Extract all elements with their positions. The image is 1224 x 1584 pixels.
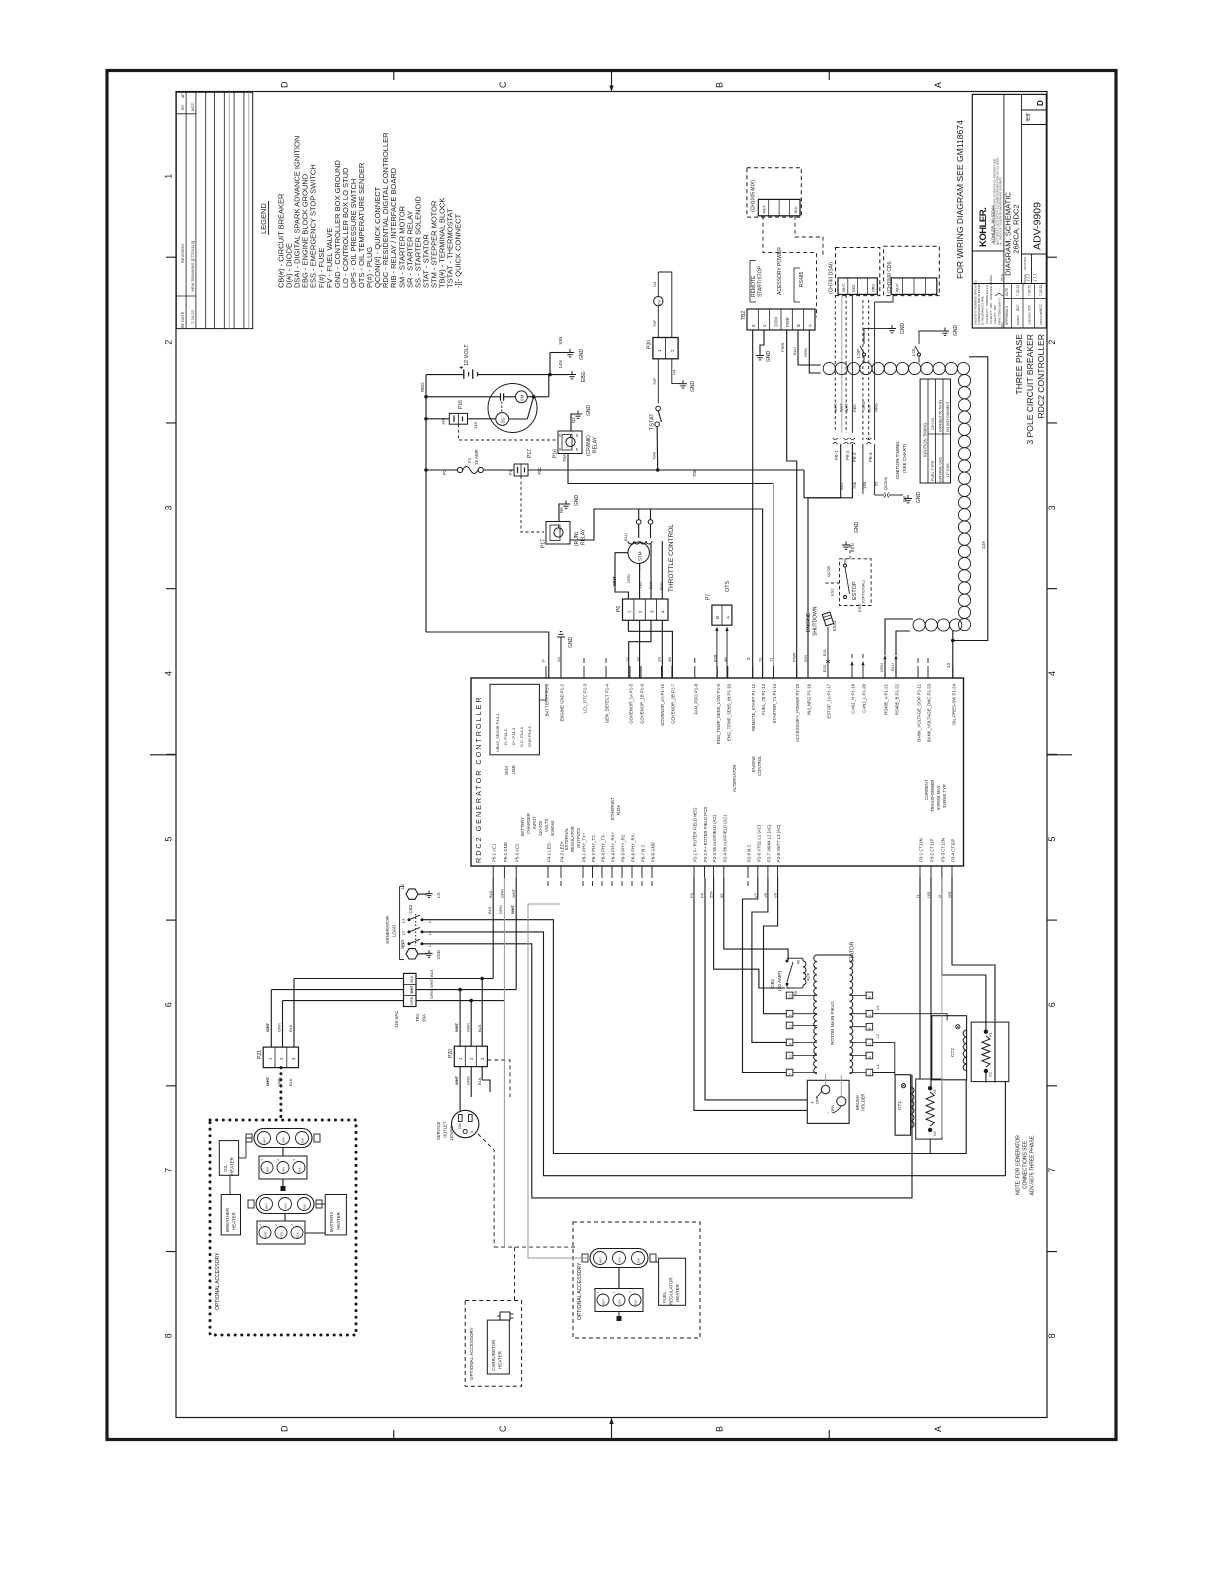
svg-text:RED: RED	[852, 284, 856, 292]
svg-text:N1: N1	[556, 656, 561, 662]
wire 71 grey to P1-14	[773, 484, 775, 679]
svg-text:6: 6	[164, 1002, 174, 1007]
stator phase leads L3 L2 L1	[873, 1014, 947, 1021]
svg-text:FN: FN	[689, 893, 694, 898]
svg-text:BLK: BLK	[303, 1204, 307, 1209]
svg-text:BCC: BCC	[1016, 304, 1020, 311]
svg-text:110 VAC: 110 VAC	[394, 1010, 399, 1028]
svg-text:L1: L1	[401, 942, 406, 947]
svg-text:BLK: BLK	[634, 1300, 638, 1305]
svg-text:RED: RED	[659, 582, 664, 591]
wires below P8	[808, 444, 841, 678]
svg-text:FV: FV	[657, 300, 662, 305]
svg-text:SHUTDOWN: SHUTDOWN	[813, 606, 819, 636]
svg-text:RJ45: RJ45	[616, 805, 621, 815]
svg-text:P6-1 PHY_TX+: P6-1 PHY_TX+	[582, 832, 587, 862]
svg-text:P3-4 CTJ2P: P3-4 CTJ2P	[951, 838, 956, 862]
svg-text:26RCA, RDC2: 26RCA, RDC2	[1012, 204, 1021, 253]
svg-text:L2: L2	[875, 1033, 880, 1038]
svg-text:GRN: GRN	[466, 1023, 471, 1032]
svg-text:THROTTLE CONTROL: THROTTLE CONTROL	[668, 524, 675, 592]
svg-text:HEATER: HEATER	[230, 1156, 235, 1175]
zone ticks left/right	[166, 256, 176, 258]
quick connect N3 to GND	[875, 494, 884, 496]
chain bottom wires GRN BLU to P1-21 P1-22	[885, 619, 913, 655]
svg-text:GND: GND	[579, 349, 585, 361]
svg-text:I2R: I2R	[947, 892, 952, 898]
svg-text:L2: L2	[427, 930, 432, 935]
svg-text:V8: V8	[763, 892, 768, 898]
svg-text:FRACTIONS &#177;: FRACTIONS &#177;	[998, 297, 1002, 325]
svg-text:5: 5	[164, 837, 174, 842]
svg-text:NEW DRAWING [CT221113]: NEW DRAWING [CT221113]	[190, 241, 195, 292]
ground 10N GND	[550, 352, 566, 354]
svg-text:P2-6 V7/11 L1 (AC): P2-6 V7/11 L1 (AC)	[756, 824, 761, 862]
svg-text:CARBURETOR: CARBURETOR	[491, 1339, 496, 1371]
svg-text:RE: RE	[181, 322, 185, 328]
svg-text:REGULATOR: REGULATOR	[570, 826, 575, 852]
oil heater	[219, 1141, 238, 1176]
svg-text:STARTER_71 P1-14: STARTER_71 P1-14	[772, 683, 777, 723]
svg-text:RED: RED	[420, 382, 425, 392]
inner drawing frame	[176, 92, 1047, 1418]
svg-text:LOL: LOL	[911, 347, 916, 356]
svg-text:WHT: WHT	[511, 888, 516, 898]
svg-text:BATTERY: BATTERY	[329, 1212, 334, 1232]
svg-text:P6-6 PHY_RX-: P6-6 PHY_RX-	[631, 833, 636, 862]
brush feed wires from controller	[705, 878, 807, 1100]
svg-text:ES1: ES1	[823, 649, 827, 656]
svg-text:CONTROL: CONTROL	[757, 755, 762, 776]
svg-text:ESTOP: ESTOP	[852, 581, 858, 600]
svg-text:50/60Hz: 50/60Hz	[550, 820, 555, 836]
svg-text:WHT: WHT	[602, 1299, 606, 1305]
TB2 PWR wire	[787, 330, 797, 678]
svg-text:P8-2: P8-2	[845, 450, 850, 460]
svg-text:P6-7 N.C.: P6-7 N.C.	[641, 843, 646, 862]
svg-text:BANK_VOLTAGE_DNC P1-23: BANK_VOLTAGE_DNC P1-23	[927, 683, 932, 742]
svg-text:P2-3 55 AUXFIELD (AC): P2-3 55 AUXFIELD (AC)	[712, 814, 717, 862]
svg-text:(OPTIONAL): (OPTIONAL)	[861, 579, 866, 603]
svg-text:SERVICE: SERVICE	[436, 1121, 441, 1140]
svg-text:CB2: CB2	[408, 904, 413, 913]
svg-text:P3-1 CTJ1N: P3-1 CTJ1N	[919, 838, 924, 862]
fuse F1 15 AMP	[426, 469, 457, 471]
svg-text:70B: 70B	[692, 469, 697, 477]
svg-text:BLK: BLK	[429, 969, 434, 977]
svg-text:7-20-22: 7-20-22	[190, 309, 195, 324]
svg-text:GND: GND	[900, 323, 906, 335]
svg-text:P8-1: P8-1	[834, 450, 839, 460]
svg-text:GOVENOR_2B P1-7: GOVENOR_2B P1-7	[670, 683, 675, 723]
svg-text:BLK: BLK	[868, 404, 872, 412]
dotted optional accessory box (heaters)	[210, 1120, 356, 1335]
TB2 pin 4 ground	[760, 330, 764, 352]
svg-text:BLK: BLK	[288, 1078, 293, 1086]
svg-text:BLK: BLK	[298, 1167, 302, 1172]
svg-text:GRN: GRN	[282, 1167, 286, 1173]
svg-text:P8-4: P8-4	[868, 452, 873, 462]
svg-text:RELAY: RELAY	[593, 436, 599, 453]
svg-text:L3: L3	[875, 1005, 880, 1010]
svg-text:2: 2	[1047, 340, 1057, 345]
svg-text:WHT: WHT	[263, 1137, 267, 1143]
svg-text:CHARGER: CHARGER	[526, 813, 531, 834]
breather heater	[221, 1195, 240, 1235]
svg-text:V9: V9	[773, 892, 778, 898]
svg-text:PWR: PWR	[792, 653, 797, 662]
run relay P17	[546, 522, 570, 545]
svg-text:86: 86	[575, 433, 579, 437]
svg-text:ROTOR MAIN FIELD: ROTOR MAIN FIELD	[830, 1001, 835, 1045]
svg-text:GRN: GRN	[618, 1299, 622, 1305]
svg-text:D+ P14-3: D+ P14-3	[511, 727, 516, 745]
svg-text:B: B	[715, 82, 725, 88]
svg-text:CH740: CH740	[931, 418, 935, 430]
load wires L3 L2 L1	[422, 920, 966, 1154]
svg-text:3: 3	[1047, 505, 1057, 510]
svg-text:P17: P17	[541, 539, 547, 548]
stepper motor STM	[628, 542, 649, 563]
connector P17 inline	[514, 464, 528, 476]
svg-text:WHT: WHT	[840, 403, 844, 412]
svg-text:BATTERY+ P1-1: BATTERY+ P1-1	[545, 683, 550, 716]
svg-text:L2: L2	[401, 930, 406, 935]
throttle wires to P6	[639, 563, 641, 570]
svg-text:WHT: WHT	[896, 283, 900, 292]
svg-text:1A: 1A	[625, 657, 630, 662]
svg-text:GND: GND	[766, 351, 772, 363]
starter capacitor and links	[426, 396, 500, 398]
svg-text:DJY: DJY	[1028, 304, 1032, 311]
svg-text:LCL_PTC P1-3: LCL_PTC P1-3	[583, 683, 588, 713]
svg-text:4: 4	[868, 1056, 872, 1058]
svg-text:GRN: GRN	[626, 574, 631, 583]
svg-text:A: A	[808, 324, 813, 327]
CB1 aux feed wires	[714, 878, 785, 988]
svg-text:REVISION: REVISION	[180, 244, 185, 263]
svg-text:REMOTE: REMOTE	[751, 275, 757, 297]
svg-text:ENGINE GND P1-2: ENGINE GND P1-2	[560, 683, 565, 721]
svg-text:A: A	[726, 616, 731, 619]
TB2 B BLU wire to coil	[798, 330, 821, 365]
svg-text:87: 87	[558, 433, 562, 437]
svg-text:14S: 14S	[473, 422, 478, 429]
svg-text:7: 7	[1047, 1168, 1057, 1173]
connector P16	[449, 413, 467, 424]
svg-text:TB2: TB2	[741, 311, 747, 320]
svg-text:55F: 55F	[709, 891, 714, 898]
svg-text:OUTPUTS: OUTPUTS	[576, 828, 581, 848]
dashed link P16 to crank relay	[458, 424, 556, 440]
svg-text:AP: AP	[181, 93, 185, 98]
CT1 X2 stub to bus	[929, 1139, 931, 1153]
svg-text:110VAC: 110VAC	[449, 1126, 454, 1141]
svg-text:3 POLE CIRCUIT BREAKER: 3 POLE CIRCUIT BREAKER	[1025, 334, 1035, 445]
lug L0	[406, 889, 418, 899]
svg-text:9: 9	[789, 1014, 793, 1016]
terminal block TB2	[747, 309, 815, 330]
svg-text:BCC: BCC	[190, 102, 195, 111]
svg-text:HEATER: HEATER	[232, 1211, 237, 1230]
svg-text:ORG: ORG	[872, 284, 876, 292]
svg-text:P6-8 GND: P6-8 GND	[651, 842, 656, 862]
dashed wires CH1005	[763, 216, 817, 317]
svg-text:AUX: AUX	[806, 972, 811, 981]
svg-text:FUEL: FUEL	[662, 1291, 667, 1303]
svg-text:ADV-9909: ADV-9909	[1032, 202, 1044, 250]
starter SS solenoid circle	[496, 413, 509, 426]
ground GND for N1 (inverted)	[560, 637, 562, 678]
svg-text:(SEE CHART): (SEE CHART)	[902, 443, 907, 473]
svg-text:GND: GND	[568, 637, 574, 649]
svg-text:BLK: BLK	[477, 1024, 482, 1032]
svg-text:ENGINE: ENGINE	[751, 756, 756, 772]
ignition coil winding chain	[823, 362, 835, 374]
svg-text:P21: P21	[257, 1050, 263, 1059]
svg-text:CT2: CT2	[950, 1048, 956, 1057]
svg-text:IGNITION TIMING: IGNITION TIMING	[895, 441, 900, 479]
wire 13A	[953, 357, 988, 641]
TB2 pin 3 wire to P1-12	[752, 330, 754, 678]
svg-text:BLK: BLK	[648, 581, 653, 589]
svg-text:APPROVALS: APPROVALS	[1005, 306, 1009, 325]
svg-text:GRN: GRN	[879, 663, 884, 672]
starter motor circle	[488, 384, 537, 433]
CT1 secondary wires	[919, 878, 921, 1079]
connector P6	[623, 599, 669, 620]
svg-text:DO NOT CONNECT: DO NOT CONNECT	[946, 401, 950, 432]
svg-text:FUEL_70 P1-13: FUEL_70 P1-13	[761, 683, 766, 714]
svg-text:PLOTTED: PLOTTED	[1023, 257, 1027, 270]
svg-text:6: 6	[868, 996, 872, 998]
svg-text:2: 2	[164, 340, 174, 345]
wire P16 to starter	[426, 418, 449, 420]
svg-text:X2: X2	[932, 1130, 937, 1136]
svg-text:GENERATOR: GENERATOR	[385, 915, 390, 944]
svg-text:LP GAS: LP GAS	[946, 463, 950, 477]
svg-text:20A: 20A	[422, 1014, 427, 1022]
svg-text:GRN: GRN	[862, 401, 866, 410]
svg-text:CB1: CB1	[770, 978, 776, 988]
carburetor heater	[487, 1320, 509, 1374]
svg-text:L3: L3	[401, 918, 406, 923]
svg-text:P7: P7	[706, 594, 712, 600]
svg-text:CURRENT: CURRENT	[924, 779, 929, 800]
svg-text:GRN: GRN	[410, 996, 414, 1004]
svg-text:BLK: BLK	[301, 1138, 305, 1143]
svg-text:VOLTS: VOLTS	[544, 818, 549, 832]
P30 wires	[657, 359, 659, 404]
svg-text:(CH740 DSAI): (CH740 DSAI)	[829, 262, 835, 294]
svg-text:VBUS_SENSE P14-1: VBUS_SENSE P14-1	[495, 713, 500, 752]
svg-text:L3: L3	[427, 918, 432, 923]
svg-text:10N: 10N	[558, 337, 563, 345]
svg-text:CHECKED: CHECKED	[1028, 312, 1032, 325]
svg-text:OPTIONAL ACCESSORY: OPTIONAL ACCESSORY	[577, 1262, 583, 1320]
svg-text:P16: P16	[458, 400, 464, 409]
svg-text:WHT: WHT	[763, 205, 767, 214]
P6 wires to pins (crossover)	[628, 620, 672, 678]
svg-text:ACESSORY POWER: ACESSORY POWER	[777, 247, 783, 295]
svg-text:APPROVED: APPROVED	[1039, 310, 1043, 325]
svg-text:NCC: NCC	[1039, 303, 1043, 311]
svg-text:DRAWN: DRAWN	[1016, 315, 1020, 325]
svg-text:3VRMS TYP: 3VRMS TYP	[942, 784, 947, 808]
svg-text:OUTLET: OUTLET	[443, 1121, 448, 1138]
svg-text:GRN: GRN	[498, 905, 503, 914]
svg-text:5: 5	[868, 1027, 872, 1029]
svg-text:WHT: WHT	[612, 576, 617, 586]
svg-text:ACCESSORY_POWER P1-15: ACCESSORY_POWER P1-15	[795, 683, 800, 742]
svg-text:GEN_DETECT P1-4: GEN_DETECT P1-4	[605, 683, 610, 723]
svg-text:WHT: WHT	[410, 985, 414, 994]
svg-text:(CH1005 MIX): (CH1005 MIX)	[751, 180, 757, 212]
svg-text:70C: 70C	[537, 466, 542, 475]
svg-text:71: 71	[769, 657, 774, 662]
wire RED battery negative bus	[425, 375, 427, 632]
svg-text:P2-7 V8/44 L2 (AC): P2-7 V8/44 L2 (AC)	[766, 824, 771, 862]
connector P30	[653, 338, 678, 359]
svg-text:MINI: MINI	[504, 766, 509, 775]
svg-text:BLK: BLK	[487, 906, 492, 914]
svg-text:(CH1000 CDI): (CH1000 CDI)	[887, 261, 893, 293]
svg-text:4-4: 4-4	[1027, 114, 1033, 121]
svg-text:P5-1 AC1: P5-1 AC1	[492, 843, 497, 862]
crank relay P16	[558, 431, 582, 454]
svg-text:ESTOP_1A P1-17: ESTOP_1A P1-17	[827, 683, 832, 718]
svg-text:QCON: QCON	[827, 565, 831, 577]
svg-text:5: 5	[1047, 837, 1057, 842]
svg-text:RDC2 CONTROLLER: RDC2 CONTROLLER	[1036, 334, 1046, 419]
svg-text:P2-4 66 AUXFIELD (AC): P2-4 66 AUXFIELD (AC)	[722, 814, 727, 862]
svg-text:F1: F1	[508, 469, 513, 475]
CH740 connector	[838, 278, 877, 295]
svg-text:CONNECT 65 TO N3: CONNECT 65 TO N3	[938, 400, 942, 432]
svg-text:OFN: OFN	[831, 1105, 835, 1113]
svg-text:RS485: RS485	[799, 271, 805, 287]
svg-text:ESS1: ESS1	[832, 620, 837, 631]
svg-text:F1: F1	[467, 457, 472, 463]
svg-text:INJ_NEG P1-16: INJ_NEG P1-16	[807, 683, 812, 714]
svg-text:65: 65	[719, 893, 724, 898]
svg-text:8: 8	[1047, 1333, 1057, 1338]
svg-text:STM: STM	[638, 551, 643, 561]
svg-text:BREATHER: BREATHER	[225, 1207, 230, 1232]
ignition harness wires to P8 plugs	[841, 294, 843, 432]
aux winding	[803, 961, 806, 985]
dashed option box CH1005 MIX	[747, 168, 801, 217]
svg-text:INPUT: INPUT	[532, 816, 537, 829]
svg-text:GRN: GRN	[280, 1232, 284, 1238]
svg-text:SURFACE FINISH: SURFACE FINISH	[989, 275, 993, 300]
svg-text:P2-5 N.C.: P2-5 N.C.	[747, 843, 752, 862]
svg-text:HEATER: HEATER	[336, 1211, 341, 1230]
svg-text:P5-2 GND: P5-2 GND	[503, 842, 508, 862]
svg-text:REMOTE_START P1-12: REMOTE_START P1-12	[751, 683, 756, 731]
svg-text:GRN: GRN	[618, 1257, 622, 1263]
svg-text:QCON8: QCON8	[884, 477, 888, 490]
svg-text:NATURAL GAS: NATURAL GAS	[938, 456, 942, 482]
svg-text:13: 13	[946, 662, 951, 668]
svg-text:WHT: WHT	[510, 904, 515, 914]
svg-text:WHT: WHT	[265, 1022, 270, 1032]
wire to EBG grounds	[549, 353, 551, 375]
svg-text:RS485_B P1-22: RS485_B P1-22	[895, 683, 900, 715]
svg-text:P2-8 V9/77 L3 (AC): P2-8 V9/77 L3 (AC)	[776, 824, 781, 862]
revision table grey rules	[228, 92, 230, 328]
svg-text:TITLE: TITLE	[1000, 274, 1004, 282]
svg-text:1B: 1B	[636, 657, 641, 662]
svg-text:7: 7	[789, 1073, 793, 1075]
svg-text:BLU: BLU	[792, 347, 797, 355]
wire 70C to TSTAT junction	[528, 469, 658, 471]
current transformer CT1	[895, 1075, 911, 1136]
svg-text:IGN: IGN	[839, 483, 844, 490]
svg-text:D: D	[280, 1425, 290, 1432]
svg-text:P3-3 CT12N: P3-3 CT12N	[940, 838, 945, 862]
svg-text:L1: L1	[427, 942, 432, 947]
svg-text:SS: SS	[501, 418, 506, 424]
svg-text:BANK_VOLTAGE_DOP P1-11: BANK_VOLTAGE_DOP P1-11	[917, 683, 922, 741]
svg-text:BLK: BLK	[794, 206, 798, 213]
svg-text:55: 55	[794, 991, 798, 995]
crank relay N2 ground	[571, 414, 576, 431]
svg-text:OPTIONAL ACCESSORY: OPTIONAL ACCESSORY	[215, 1252, 221, 1310]
svg-text:THREE PHASE: THREE PHASE	[1014, 334, 1024, 395]
svg-text:GND: GND	[916, 492, 922, 504]
svg-text:1: 1	[164, 174, 174, 179]
svg-text:85: 85	[575, 447, 579, 451]
svg-text:7-20-22: 7-20-22	[1039, 285, 1043, 296]
svg-text:P3-2 CTJ1P: P3-2 CTJ1P	[930, 838, 935, 862]
svg-text:7-20-22: 7-20-22	[1016, 285, 1020, 296]
svg-text:BLK: BLK	[410, 975, 414, 982]
svg-text:LG: LG	[436, 892, 441, 898]
wire battery to controller P1-1	[426, 632, 549, 678]
svg-text:RDC2 GENERATOR CONTROLLER: RDC2 GENERATOR CONTROLLER	[474, 695, 483, 863]
svg-text:ALTERNATOR: ALTERNATOR	[732, 765, 737, 792]
run relay N5 ground	[559, 504, 564, 522]
quick connects P8-1 P8-2 P8-3 P8-4	[833, 438, 838, 444]
svg-text:GND: GND	[574, 495, 580, 507]
svg-text:13A: 13A	[981, 541, 986, 549]
connector P20	[454, 1046, 487, 1066]
svg-text:ORG: ORG	[875, 403, 879, 412]
svg-text:BLK: BLK	[477, 1077, 482, 1085]
svg-text:HOLDER: HOLDER	[861, 1094, 866, 1111]
svg-text:GRN: GRN	[499, 889, 504, 898]
svg-text:OTS: OTS	[725, 580, 731, 592]
svg-text:P: P	[541, 659, 546, 662]
svg-text:D: D	[1036, 100, 1045, 106]
svg-text:12: 12	[789, 994, 793, 998]
dashed option box CH740 DSAI	[836, 248, 880, 296]
svg-text:ADV-5875 THREE PHASE.: ADV-5875 THREE PHASE.	[1030, 1135, 1036, 1196]
svg-text:A: A	[933, 1426, 943, 1432]
svg-text:P6-2 PHY_TC: P6-2 PHY_TC	[591, 835, 596, 862]
svg-text:PWR: PWR	[785, 317, 790, 327]
svg-text:NOTE: FOR GENERATOR: NOTE: FOR GENERATOR	[1016, 1135, 1022, 1195]
dashed option box CH1000 CDI	[884, 246, 940, 295]
svg-text:N4: N4	[672, 369, 677, 375]
outer sheet border	[107, 71, 1116, 1440]
svg-text:.X &#177; .060: .X &#177; .060	[993, 305, 997, 325]
CH1000 connector	[891, 278, 937, 295]
svg-text:WHT: WHT	[429, 978, 434, 988]
CH1005 connector	[758, 199, 800, 215]
current transformer CT2	[932, 1016, 967, 1080]
